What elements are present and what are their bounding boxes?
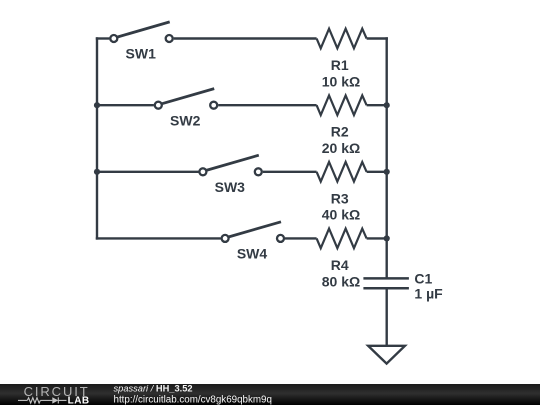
junction node row2-right [384, 102, 390, 108]
circuitlab logo wordmark [24, 384, 90, 405]
wire row4 SW4-to-R4 [285, 237, 317, 239]
switch SW1 [110, 22, 172, 62]
svg-text:10 kΩ: 10 kΩ [322, 73, 360, 89]
svg-text:R1: R1 [331, 57, 349, 73]
wire left bus vertical [96, 37, 98, 239]
wire right bus vertical [386, 37, 388, 278]
svg-text:1 µF: 1 µF [414, 286, 443, 302]
wire row4 left stub [96, 237, 221, 239]
wire row4 R4-to-right-bus [367, 237, 387, 239]
svg-text:LAB: LAB [68, 396, 90, 405]
resistor R3 [317, 162, 367, 223]
svg-text:40 kΩ: 40 kΩ [322, 207, 360, 223]
wire row1 R1-to-right-bus [367, 37, 388, 39]
svg-text:C1: C1 [414, 270, 432, 286]
switch SW4 [222, 222, 284, 262]
switch SW3 [199, 155, 261, 195]
wire row3 left stub [96, 171, 199, 173]
ground [368, 346, 405, 364]
svg-text:SW1: SW1 [126, 46, 157, 62]
wire row1 SW1-to-R1 [174, 37, 317, 39]
wire row2 left stub [96, 104, 154, 106]
svg-text:80 kΩ: 80 kΩ [322, 273, 360, 289]
wire row3 R3-to-right-bus [367, 171, 387, 173]
resistor R4 [317, 229, 367, 290]
wire row3 SW3-to-R3 [263, 171, 317, 173]
junction node row2-left [94, 102, 100, 108]
circuitlab logo circuit glyph (wire, resistor, diode) [18, 397, 67, 403]
junction node row4-right [384, 235, 390, 241]
svg-text:R2: R2 [331, 124, 349, 140]
wire row2 R2-to-right-bus [367, 104, 387, 106]
junction node row3-left [94, 169, 100, 175]
svg-text:R4: R4 [331, 257, 349, 273]
wire row2 SW2-to-R2 [218, 104, 316, 106]
resistor R1 [317, 29, 367, 90]
svg-text:http://circuitlab.com/cv8gk69q: http://circuitlab.com/cv8gk69qbkm9q [114, 394, 272, 405]
svg-text:spassari / HH_3.52: spassari / HH_3.52 [114, 384, 193, 394]
svg-text:20 kΩ: 20 kΩ [322, 140, 360, 156]
footer bar [0, 384, 540, 405]
svg-text:R3: R3 [331, 190, 349, 206]
capacitor C1 [363, 270, 443, 301]
svg-text:SW4: SW4 [237, 246, 268, 262]
switch SW2 [155, 89, 217, 129]
wire row1 left stub [96, 37, 110, 39]
svg-text:SW3: SW3 [215, 179, 246, 195]
wire capacitor-to-ground [386, 289, 388, 346]
junction node row3-right [384, 169, 390, 175]
svg-text:SW2: SW2 [170, 112, 201, 128]
resistor R2 [317, 95, 367, 156]
